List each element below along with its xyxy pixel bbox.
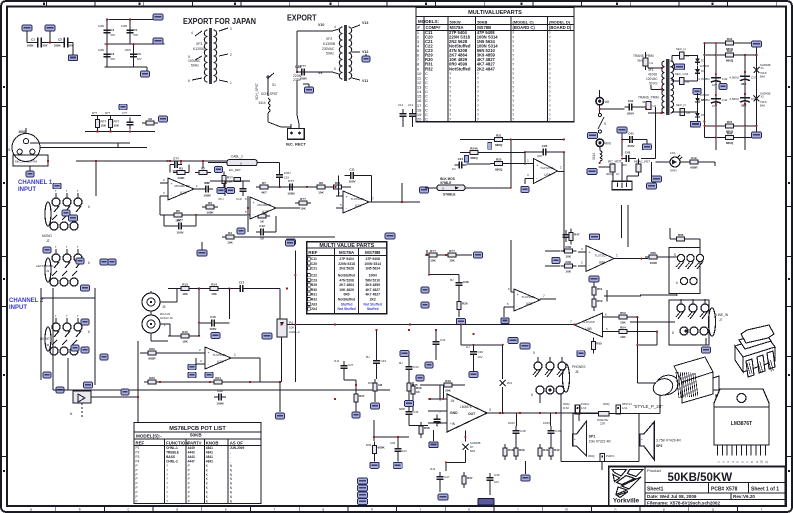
svg-text:1N: 1N [452,167,456,171]
svg-text:1U: 1U [260,236,264,240]
svg-text:100N 5314: 100N 5314 [364,262,381,266]
svg-text:TREBLE: TREBLE [166,451,179,455]
svg-text:6: 6 [88,261,90,265]
svg-text:4,500U: 4,500U [729,97,739,101]
svg-text:100N: 100N [54,44,61,48]
svg-text:m: m [565,508,568,512]
svg-text:C1: C1 [31,38,35,42]
svg-text:OUT: OUT [468,412,476,416]
svg-text:100N: 100N [508,421,515,425]
svg-text:CHANNEL 1: CHANNEL 1 [18,180,53,186]
svg-text:11: 11 [765,460,769,463]
svg-text:C22: C22 [311,273,317,277]
svg-text:R5: R5 [176,209,180,213]
svg-text:4K7 4827: 4K7 4827 [365,293,380,297]
svg-text:U1: U1 [650,61,654,65]
svg-text:R37: R37 [467,476,473,480]
svg-text:R29: R29 [311,283,317,287]
svg-text:R41: R41 [543,448,549,452]
svg-text:C34: C34 [413,365,419,369]
svg-text:C??: C?? [177,218,183,222]
svg-text:1: 1 [560,166,562,170]
svg-text:R7: R7 [262,181,266,185]
svg-text:U3A: U3A [217,360,224,364]
svg-text:10K: 10K [620,321,626,325]
svg-text:R26: R26 [462,302,468,306]
svg-text:XF3: XF3 [196,42,202,46]
svg-text:MC33078P: MC33078P [174,184,189,188]
svg-text:MS78LPCB POT LIST: MS78LPCB POT LIST [169,426,226,432]
svg-text:R47: R47 [727,120,733,124]
svg-text:A7: A7 [616,172,620,176]
svg-text:47N 5208: 47N 5208 [339,278,354,282]
svg-text:?: ? [166,473,168,477]
svg-text:680Q: 680Q [470,156,478,160]
svg-text:CABL_1: CABL_1 [231,155,243,159]
svg-text:360Q: 360Q [588,454,595,458]
svg-text:C11: C11 [349,167,355,171]
svg-text:P: P [188,464,190,468]
svg-text:MIC_IN XLR FM: MIC_IN XLR FM [15,160,38,164]
svg-text:R22: R22 [149,347,155,351]
svg-text:g: g [322,508,324,512]
svg-text:+IN: +IN [450,422,456,426]
svg-text:100N: 100N [216,401,223,405]
svg-text:K1309B: K1309B [323,42,336,46]
svg-text:C11: C11 [311,257,317,261]
svg-text:3: 3 [489,408,491,412]
svg-text:U: U [240,162,242,166]
svg-text:(MODEL C): (MODEL C) [513,20,535,25]
svg-text:?: ? [166,468,168,472]
svg-text:C27: C27 [348,363,354,367]
svg-text:4841: 4841 [206,459,213,463]
svg-text:C24: C24 [458,157,464,161]
svg-text:MS78A: MS78A [339,250,355,255]
svg-text:6: 6 [188,79,190,83]
svg-text:AC_HOT: AC_HOT [608,160,622,164]
svg-text:C41: C41 [628,131,634,135]
svg-text:.: . [230,459,231,463]
svg-text:47U: 47U [218,197,224,201]
svg-text:SEC_H: SEC_H [676,47,686,51]
svg-text:10K: 10K [566,255,572,259]
svg-text:20K: 20K [445,389,451,393]
svg-text:LM3876: LM3876 [460,405,472,409]
svg-text:b: b [79,508,81,512]
svg-text:P2: P2 [136,451,140,455]
svg-text:NotStuffed: NotStuffed [338,273,355,277]
svg-text:R38: R38 [508,448,514,452]
svg-text:100VAC: 100VAC [188,59,201,63]
svg-text:6: 6 [531,393,533,397]
svg-text:C23: C23 [311,278,317,282]
svg-text:5: 5 [674,253,676,257]
svg-text:R-B: R-B [691,156,697,160]
svg-text:10V: 10V [402,449,407,453]
svg-text:V11: V11 [362,79,368,83]
svg-text:50 RJ: 50 RJ [649,82,658,86]
svg-text:R23: R23 [149,376,155,380]
svg-text:1: 1 [616,254,618,258]
svg-text:4,700BU: 4,700BU [698,98,710,102]
svg-text:100N: 100N [287,191,294,195]
svg-text:8: 8 [672,331,674,335]
svg-text:Filename: X578-6V19sch.sch2002: Filename: X578-6V19sch.sch2002 [647,500,720,505]
svg-text:1/13: 1/13 [581,406,587,410]
svg-text:R48: R48 [566,245,572,249]
svg-text:MONO: MONO [42,234,52,238]
svg-text:R36: R36 [366,443,372,447]
svg-text:8U: 8U [399,361,403,365]
svg-text:MULTI VALUE PARTS: MULTI VALUE PARTS [319,243,374,249]
svg-text:S: S [604,122,606,126]
svg-text:D7: D7 [470,445,474,449]
svg-text:R56: R56 [678,233,684,237]
svg-text:C21: C21 [311,267,317,271]
svg-text:C6: C6 [137,52,141,56]
svg-text:(BOARD C): (BOARD C) [513,25,536,30]
svg-text:R35: R35 [412,383,418,387]
svg-text:k: k [468,508,470,512]
svg-text:BASS: BASS [166,455,175,459]
svg-text:50KB: 50KB [190,433,202,438]
svg-text:EXPORT: EXPORT [287,13,317,23]
svg-text:2: 2 [230,53,232,57]
svg-text:SCH_SPST: SCH_SPST [261,92,278,96]
svg-text:4449: 4449 [188,446,195,450]
svg-text:K1200Q: K1200Q [193,47,206,51]
svg-text:50V: 50V [134,33,139,37]
svg-text:10K: 10K [318,191,324,195]
svg-text:P: P [136,500,138,504]
svg-text:1N5 5624: 1N5 5624 [365,267,380,271]
svg-text:2K2 4847: 2K2 4847 [477,66,496,71]
svg-text:c: c [128,508,130,512]
svg-text:50Hz: 50Hz [191,64,199,68]
svg-text:MC33078: MC33078 [257,203,270,207]
svg-text:PART#: PART# [188,440,202,445]
svg-text:PHR H: PHR H [581,402,589,406]
svg-text:Stuffed: Stuffed [341,302,353,306]
svg-text:C10: C10 [236,197,242,201]
svg-text:R11: R11 [335,181,341,185]
svg-text:R??: R?? [92,111,98,115]
svg-text:J5: J5 [162,305,166,309]
svg-text:?: ? [166,491,168,495]
svg-text:TL072CP: TL072CP [540,166,553,170]
svg-text:NotStuffed: NotStuffed [338,297,355,301]
svg-text:1: 1 [230,81,232,85]
svg-text:SCH_SPST: SCH_SPST [255,83,259,100]
svg-text:C3: C3 [111,52,115,56]
svg-text:ZD1: ZD1 [507,381,513,385]
svg-text:360: 360 [622,163,627,167]
svg-text:J2: J2 [46,239,50,243]
svg-text:50KW: 50KW [450,20,461,25]
svg-text:P: P [136,477,138,481]
svg-text:R??: R?? [449,249,455,253]
svg-text:4447: 4447 [188,459,195,463]
svg-text:h: h [371,508,373,512]
svg-text:4K7: 4K7 [261,191,267,195]
svg-text:100V: 100V [209,327,216,331]
svg-text:REF: REF [308,250,317,255]
svg-text:2U2: 2U2 [334,359,340,363]
svg-text:LEFT/MONO: LEFT/MONO [36,264,54,268]
svg-text:100N: 100N [203,193,210,197]
svg-text:.: . [230,451,231,455]
svg-text:J3: J3 [46,269,50,273]
svg-text:C16: C16 [210,315,216,319]
svg-text:C4: C4 [111,28,115,32]
svg-text:(BOARD D): (BOARD D) [549,25,572,30]
svg-text:3F1: 3F1 [648,68,654,72]
svg-text:3K9 4859: 3K9 4859 [365,283,380,287]
svg-text:a: a [30,508,32,512]
svg-text:R38: R38 [424,426,430,430]
svg-text:50V: 50V [111,57,116,61]
svg-text:2002: 2002 [18,130,25,134]
svg-text:4,500U: 4,500U [729,76,739,80]
svg-text:PCB# X578: PCB# X578 [711,487,738,493]
svg-text:PHONES: PHONES [572,365,585,369]
svg-text:C33: C33 [381,359,387,363]
svg-text:GRN: GRN [670,169,677,173]
svg-text:C26: C26 [542,144,548,148]
svg-text:R37: R37 [359,394,365,398]
svg-text:22P: 22P [537,154,542,158]
svg-text:680K: 680K [378,446,386,450]
svg-text:100V: 100V [176,230,183,234]
svg-text:CHNL-2: CHNL-2 [166,459,178,463]
svg-text:760.8: 760.8 [760,71,767,75]
svg-text:100U: 100U [284,171,291,175]
svg-text:A8: A8 [148,117,152,121]
svg-text:FUNCTION: FUNCTION [166,440,188,445]
svg-text:50KB/50KW: 50KB/50KW [668,472,733,484]
svg-text:C38: C38 [463,280,469,284]
svg-text:R14: R14 [211,283,217,287]
svg-text:MULTIVALUEPARTS: MULTIVALUEPARTS [468,10,522,16]
svg-text:360Q: 360Q [603,402,610,406]
svg-text:TRANS_PRIM: TRANS_PRIM [638,96,659,100]
svg-text:10: 10 [760,460,764,464]
svg-text:100K: 100K [177,176,185,180]
svg-text:Sheet1: Sheet1 [647,487,664,493]
svg-text:100V: 100V [348,180,355,184]
svg-text:50V: 50V [111,33,116,37]
svg-text:2U2: 2U2 [430,467,436,471]
svg-text:Not Stuffed: Not Stuffed [364,302,382,306]
svg-text:9798LE: 9798LE [440,181,451,185]
svg-text:SHD40B: SHD40B [760,63,771,67]
svg-text:?: ? [166,500,168,504]
svg-text:P: P [136,486,138,490]
svg-text:230VAC: 230VAC [322,47,335,51]
svg-text:R50: R50 [650,251,656,255]
svg-text:NotStuffed: NotStuffed [449,66,471,71]
svg-text:U2A: U2A [355,204,362,208]
svg-text:10K: 10K [227,241,233,245]
svg-text:6: 6 [88,205,90,209]
svg-text:U2: U2 [653,104,657,108]
svg-text:R54: R54 [620,326,626,330]
svg-text:C22: C22 [217,389,223,393]
svg-text:4,700BU: 4,700BU [698,77,710,81]
svg-text:R51: R51 [597,287,603,291]
svg-text:R47: R47 [574,233,580,237]
svg-text:PHR N: PHR N [606,454,614,458]
svg-text:BA6: BA6 [760,104,765,108]
svg-text:XF2: XF2 [326,37,332,41]
svg-text:16V: 16V [712,83,717,87]
svg-text:680Q: 680Q [726,59,734,63]
svg-text:C20: C20 [311,262,317,266]
svg-text:U5B: U5B [526,302,532,306]
svg-text:C17: C17 [239,281,245,285]
svg-text:7: 7 [372,197,374,201]
svg-text:U3: U3 [686,54,690,58]
svg-text:0R0: 0R0 [343,293,349,297]
svg-text:47P 5408: 47P 5408 [365,257,380,261]
svg-text:JU3: JU3 [311,302,317,306]
svg-text:C40: C40 [628,99,634,103]
svg-text:R31: R31 [311,293,317,297]
svg-text:4841: 4841 [206,446,213,450]
svg-text:10V: 10V [494,480,499,484]
svg-text:22R: 22R [600,422,605,426]
svg-text:680P: 680P [399,407,405,411]
svg-text:GOLD JK: GOLD JK [160,316,173,320]
svg-text:P: P [188,495,190,499]
svg-text:?: ? [166,464,168,468]
svg-text:P: P [136,491,138,495]
svg-text:KNOB: KNOB [206,440,219,445]
svg-text:R13: R13 [182,283,188,287]
svg-text:100N: 100N [543,421,550,425]
svg-text:R44: R44 [727,37,733,41]
svg-text:R46: R46 [727,132,733,136]
svg-text:3: 3 [230,27,232,31]
svg-text:10K: 10K [211,292,217,296]
svg-text:38V: 38V [741,82,746,86]
svg-text:R24A: R24A [470,146,479,150]
svg-text:1: 1 [234,353,236,357]
svg-text:250V: 250V [627,144,634,148]
svg-text:+: + [641,437,643,441]
svg-text:100N: 100N [121,24,127,28]
svg-text:R55: R55 [596,342,602,346]
svg-text:5: 5 [188,55,190,59]
svg-text:q: q [712,508,714,512]
svg-text:R36: R36 [368,381,374,385]
svg-text:C9: C9 [205,181,209,185]
svg-text:C39: C39 [295,65,301,69]
svg-text:10K: 10K [182,339,188,343]
svg-text:R30: R30 [311,288,317,292]
svg-text:CHNL-2: CHNL-2 [289,330,300,334]
svg-text:360Q: 360Q [563,402,570,406]
svg-text:C: C [425,117,428,122]
svg-text:SP2: SP2 [656,444,663,448]
svg-text:PHANTE: PHANTE [597,418,608,422]
svg-text:1U: 1U [466,345,470,349]
svg-text:10K: 10K [430,259,436,263]
svg-text:R45: R45 [727,49,733,53]
svg-text:C49: C49 [555,429,561,433]
svg-text:R42: R42 [554,448,560,452]
svg-text:BA6: BA6 [760,75,765,79]
svg-text:10K 4829: 10K 4829 [339,288,354,292]
svg-text:J7: J7 [719,318,723,322]
svg-text:Not Stuffed: Not Stuffed [337,307,355,311]
svg-text:V12: V12 [362,50,368,54]
svg-text:100N: 100N [98,24,104,28]
svg-text:AV6: AV6 [605,142,611,146]
svg-text:P: P [188,491,190,495]
svg-text:C31: C31 [440,338,446,342]
svg-text:50KB: 50KB [477,20,487,25]
svg-text:JU4: JU4 [311,307,317,311]
svg-text:10V: 10V [478,355,483,359]
svg-text:n: n [614,508,616,512]
svg-text:P: P [188,477,190,481]
svg-text:100N: 100N [98,48,104,52]
svg-text:27P 5404: 27P 5404 [339,257,354,261]
svg-text:C42: C42 [625,151,631,155]
svg-text:Product: Product [647,468,662,473]
svg-text:R??: R?? [300,197,306,201]
svg-text:C5: C5 [134,28,138,32]
svg-text:C36: C36 [390,441,396,445]
svg-text:100R: 100R [650,261,658,265]
svg-text:220N 5318: 220N 5318 [338,262,355,266]
svg-text:20: 20 [417,117,422,122]
svg-text:120VAC: 120VAC [646,77,658,81]
svg-text:R39: R39 [519,448,525,452]
svg-text:C??: C?? [122,111,128,115]
svg-text:R-52: R-52 [563,406,569,410]
svg-text:8U: 8U [366,355,370,359]
svg-text:TL072CP: TL072CP [522,295,535,299]
svg-text:R25: R25 [496,158,502,162]
svg-text:INPUT: INPUT [9,305,27,311]
svg-text:U3A: U3A [544,173,551,177]
svg-text:TRANS_PRIM: TRANS_PRIM [633,54,654,58]
svg-text:CHANNEL 2: CHANNEL 2 [9,298,44,304]
svg-text:?: ? [166,477,168,481]
svg-text:250V: 250V [627,112,634,116]
svg-text:J8: J8 [575,370,579,374]
svg-text:3414: 3414 [592,153,596,160]
svg-text:10K: 10K [449,259,455,263]
svg-text:P4: P4 [136,459,140,463]
svg-text:?: ? [166,486,168,490]
svg-text:U1B: U1B [262,210,268,214]
svg-text:2K2: 2K2 [370,297,376,301]
svg-text:680Q: 680Q [495,167,503,171]
svg-text:10K: 10K [114,124,120,128]
svg-text:?: ? [166,482,168,486]
svg-text:V13: V13 [362,21,368,25]
svg-text:IEC_RECT: IEC_RECT [286,142,306,147]
svg-text:10in #7322 4R: 10in #7322 4R [589,440,612,444]
svg-text:P1: P1 [136,446,140,450]
svg-text:41008: 41008 [648,73,657,77]
svg-text:R24: R24 [215,376,221,380]
svg-text:BA6: BA6 [470,449,476,453]
